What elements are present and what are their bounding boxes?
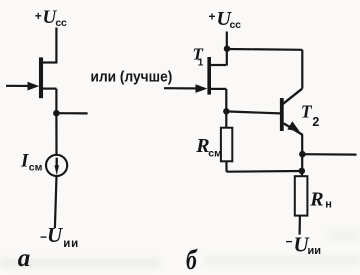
svg-text:или (лучше): или (лучше): [91, 69, 173, 86]
svg-text:1: 1: [198, 58, 204, 69]
svg-text:−: −: [286, 235, 293, 249]
svg-text:−: −: [40, 230, 47, 244]
svg-text:T: T: [301, 102, 313, 122]
svg-text:ии: ии: [308, 245, 322, 257]
svg-text:см: см: [208, 147, 222, 159]
svg-text:U: U: [47, 223, 64, 247]
svg-text:сс: сс: [230, 19, 242, 31]
svg-text:R: R: [309, 189, 323, 211]
svg-text:б: б: [186, 245, 198, 275]
svg-text:+: +: [35, 9, 42, 23]
svg-text:+: +: [209, 9, 216, 23]
svg-text:I: I: [20, 151, 29, 172]
svg-text:ии: ии: [63, 238, 79, 250]
svg-text:2: 2: [312, 115, 319, 129]
svg-text:сс: сс: [55, 17, 67, 29]
svg-text:н: н: [325, 198, 332, 210]
svg-text:а: а: [18, 245, 31, 272]
svg-text:см: см: [29, 162, 43, 174]
